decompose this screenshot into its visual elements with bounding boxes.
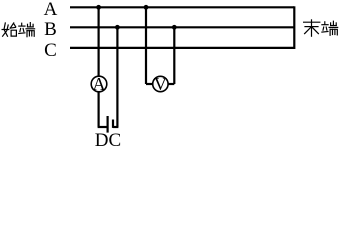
wire phase A (70, 6, 294, 8)
svg-text:A: A (93, 74, 106, 94)
svg-text:V: V (154, 74, 167, 94)
label 始端 (sending end), char 端 (19, 23, 35, 37)
wire phase C (70, 47, 294, 49)
voltmeter V1 circle (153, 76, 168, 91)
wire DC return branch (from B down to plug) (116, 27, 118, 127)
svg-text:A: A (44, 0, 58, 20)
label 末端 (receiving end), char 端 (322, 21, 338, 35)
wire voltmeter branch left horizontal (146, 83, 153, 85)
node J4 tap on phase B for voltmeter branch (172, 25, 177, 30)
wire voltmeter branch right vertical (173, 27, 175, 84)
svg-text:C: C (44, 40, 57, 61)
connector plug right lead wire (113, 126, 118, 128)
wire phase B (70, 26, 294, 28)
connector plug short blade (112, 120, 114, 128)
ammeter A1 circle (91, 76, 107, 92)
wire receiving-end vertical bus (293, 6, 295, 49)
node J1 tap on phase A for ammeter branch (96, 5, 101, 10)
wire ammeter branch lower segment (97, 92, 99, 127)
wire voltmeter branch left vertical (145, 7, 147, 84)
connector plug long blade (106, 116, 108, 133)
connector plug left lead wire (98, 126, 107, 128)
wire voltmeter branch right horizontal (168, 83, 175, 85)
label 末端 (receiving end), char 末 drawn as strokes (304, 20, 320, 36)
svg-text:DC: DC (95, 130, 121, 150)
label 始端 (sending end), char 始 drawn as strokes (2, 23, 16, 36)
node J3 tap on phase A for voltmeter branch (144, 5, 149, 10)
node J2 tap on phase B for DC return branch (115, 25, 120, 30)
wire ammeter branch upper segment (97, 7, 99, 76)
svg-text:B: B (44, 19, 57, 40)
